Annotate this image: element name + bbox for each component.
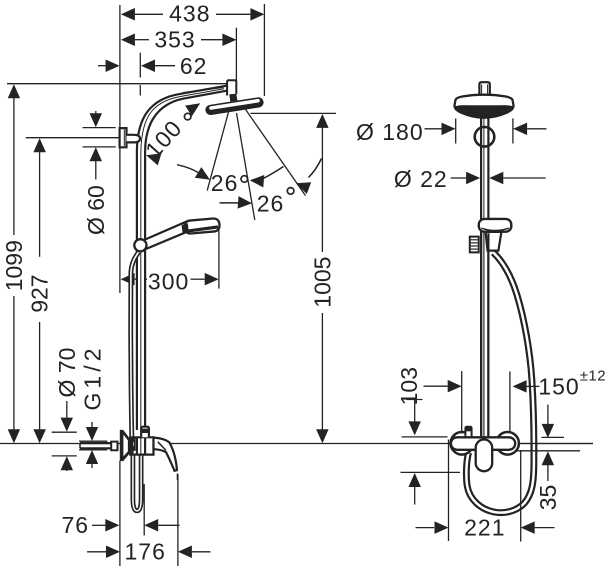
wall extension line lower bbox=[119, 461, 121, 566]
dim 150 tolerance label bbox=[580, 368, 606, 385]
hand shower head (right view) bbox=[479, 219, 512, 232]
dim 150 right arrow and extension bbox=[510, 372, 540, 434]
shower column inner edge and arm bottom bbox=[145, 91, 227, 430]
svg-text:221: 221 bbox=[464, 515, 505, 541]
riser pipe (right view) bbox=[481, 117, 488, 437]
svg-text:26: 26 bbox=[257, 191, 285, 217]
spray line right bbox=[244, 108, 305, 196]
dim 1005 bbox=[310, 114, 336, 443]
dim 221 bbox=[416, 515, 555, 541]
svg-text:1005: 1005 bbox=[310, 257, 336, 308]
dim 35 upper extension line bbox=[542, 436, 565, 438]
svg-text:Ø 22: Ø 22 bbox=[394, 166, 448, 192]
927 reference line (bracket center) bbox=[26, 137, 119, 139]
overhead shower ball joint bbox=[229, 94, 237, 102]
dim 35 label bbox=[535, 485, 561, 511]
riser pipe over handle (right view) bbox=[481, 233, 488, 437]
hose loop below mixer (left view) bbox=[133, 452, 141, 511]
mixer lever handle (right view) bbox=[476, 440, 493, 472]
angle 100 label bbox=[140, 113, 191, 163]
angle 26 second label bbox=[257, 188, 294, 217]
diverter knob (right view) bbox=[465, 427, 471, 439]
wall bracket arm and clamp bbox=[127, 135, 141, 143]
dim O60 bbox=[83, 111, 109, 235]
supply centerline (full width) bbox=[0, 443, 593, 445]
shower column outer edge and arm top bbox=[137, 86, 228, 430]
wall bracket plate bbox=[120, 128, 127, 147]
dim 176 bbox=[87, 539, 210, 565]
dim 103 label and leader bbox=[396, 367, 423, 435]
svg-text:Ø 70: Ø 70 bbox=[54, 348, 80, 398]
dim 103 upper extension line bbox=[402, 436, 448, 438]
handle tip tick bbox=[176, 474, 178, 481]
dim 353 right extension line bbox=[235, 28, 237, 83]
supply stub pipe (left view) bbox=[80, 443, 111, 448]
handle tip extension line bbox=[177, 474, 179, 566]
dim O70 bbox=[52, 348, 80, 471]
dim 221 right extension line bbox=[520, 450, 522, 542]
spray line middle bbox=[237, 113, 255, 220]
mixer left escutcheon (right view) bbox=[451, 432, 474, 455]
holder knob (right view) bbox=[470, 237, 479, 253]
angle 26 second left arrow bbox=[220, 196, 253, 209]
supply nut (left view) bbox=[111, 442, 117, 451]
dim 103 lower arrow bbox=[408, 473, 421, 505]
hand shower hose upper bbox=[131, 252, 139, 443]
dim 300 bbox=[121, 269, 219, 295]
shower column inner highlight line bbox=[141, 89, 224, 430]
hand shower handle bbox=[144, 222, 187, 249]
svg-text:±12: ±12 bbox=[580, 368, 606, 385]
svg-text:176: 176 bbox=[125, 539, 166, 565]
dim 438 right extension line bbox=[263, 4, 265, 96]
hand shower head bbox=[182, 218, 220, 234]
svg-text:76: 76 bbox=[62, 512, 90, 538]
angle 26 first right arrow bbox=[250, 167, 284, 188]
dim 103 lower extension line bbox=[401, 471, 461, 473]
svg-text:150: 150 bbox=[538, 374, 579, 400]
dim 438 bbox=[121, 1, 265, 27]
dim O180 bbox=[356, 119, 547, 145]
wall escutcheon cone (left view) bbox=[120, 430, 130, 461]
svg-text:927: 927 bbox=[27, 274, 53, 312]
angle 100 upper arrowhead bbox=[185, 103, 200, 116]
dim 300 right extension line bbox=[218, 228, 220, 288]
arm highlight line bbox=[183, 87, 224, 92]
mixer body (left view) bbox=[129, 437, 153, 454]
dim 35 lower extension line bbox=[517, 450, 580, 452]
arm elbow connector bbox=[227, 80, 236, 95]
angle 100 lower arrowhead bbox=[146, 153, 161, 165]
dim 62 extension line bbox=[139, 53, 141, 96]
dim O60 extension lines bbox=[83, 128, 116, 147]
dim 353 bbox=[121, 27, 236, 53]
dim 76 bbox=[62, 512, 180, 538]
dim 62 bbox=[98, 53, 207, 79]
mixer right escutcheon (right view) bbox=[496, 432, 519, 455]
svg-text:G1/2: G1/2 bbox=[79, 349, 105, 411]
hose extension line (left view) bbox=[143, 484, 145, 536]
svg-text:Ø 60: Ø 60 bbox=[83, 185, 109, 235]
dim 150 left arrow and extension bbox=[424, 371, 462, 434]
mixer body (right view) bbox=[451, 437, 515, 450]
hand shower handle (right view) bbox=[486, 232, 502, 251]
dim 1005 top reference line bbox=[251, 112, 337, 114]
wall extension line upper bbox=[119, 5, 121, 293]
svg-text:62: 62 bbox=[180, 53, 208, 79]
overhead shower disc (right view) bbox=[454, 95, 513, 118]
pipe joint circle (right view) bbox=[475, 127, 495, 147]
pipes crossing mixer body (left view) bbox=[132, 437, 145, 454]
supply centerline over hose (right view) bbox=[520, 443, 593, 445]
spray line left bbox=[207, 112, 228, 191]
svg-text:353: 353 bbox=[154, 27, 195, 53]
pipe cap (right view) bbox=[478, 82, 491, 96]
svg-text:300: 300 bbox=[148, 269, 189, 295]
dim 35 lower arrow bbox=[542, 451, 555, 481]
svg-text:26: 26 bbox=[211, 170, 239, 196]
dim O22 bbox=[394, 166, 546, 192]
svg-text:35: 35 bbox=[535, 485, 561, 511]
dim G1/2 bbox=[79, 349, 107, 469]
angle 26 second right arrow bbox=[296, 159, 322, 195]
shower hose (right view) bbox=[466, 253, 534, 513]
hand shower holder knob bbox=[134, 239, 146, 251]
dim 150 label bbox=[538, 374, 579, 400]
dim 221 left extension line bbox=[448, 440, 450, 542]
dim 1099 bbox=[1, 84, 27, 443]
svg-text:1099: 1099 bbox=[1, 240, 27, 291]
angle 26 first label bbox=[211, 170, 248, 196]
svg-text:438: 438 bbox=[169, 1, 210, 27]
dim 927 bbox=[27, 138, 53, 443]
angle 26 first left arrow bbox=[177, 165, 210, 180]
overhead shower head bbox=[211, 101, 259, 110]
svg-text:Ø 180: Ø 180 bbox=[356, 119, 424, 145]
dim 35 upper arrow bbox=[542, 405, 555, 438]
top reference line (top of shower unit) bbox=[7, 83, 227, 85]
O180 extension lines bbox=[456, 118, 513, 143]
mixer top nipple (left view) bbox=[141, 427, 149, 438]
mixer lever handle (left view) bbox=[154, 438, 177, 471]
